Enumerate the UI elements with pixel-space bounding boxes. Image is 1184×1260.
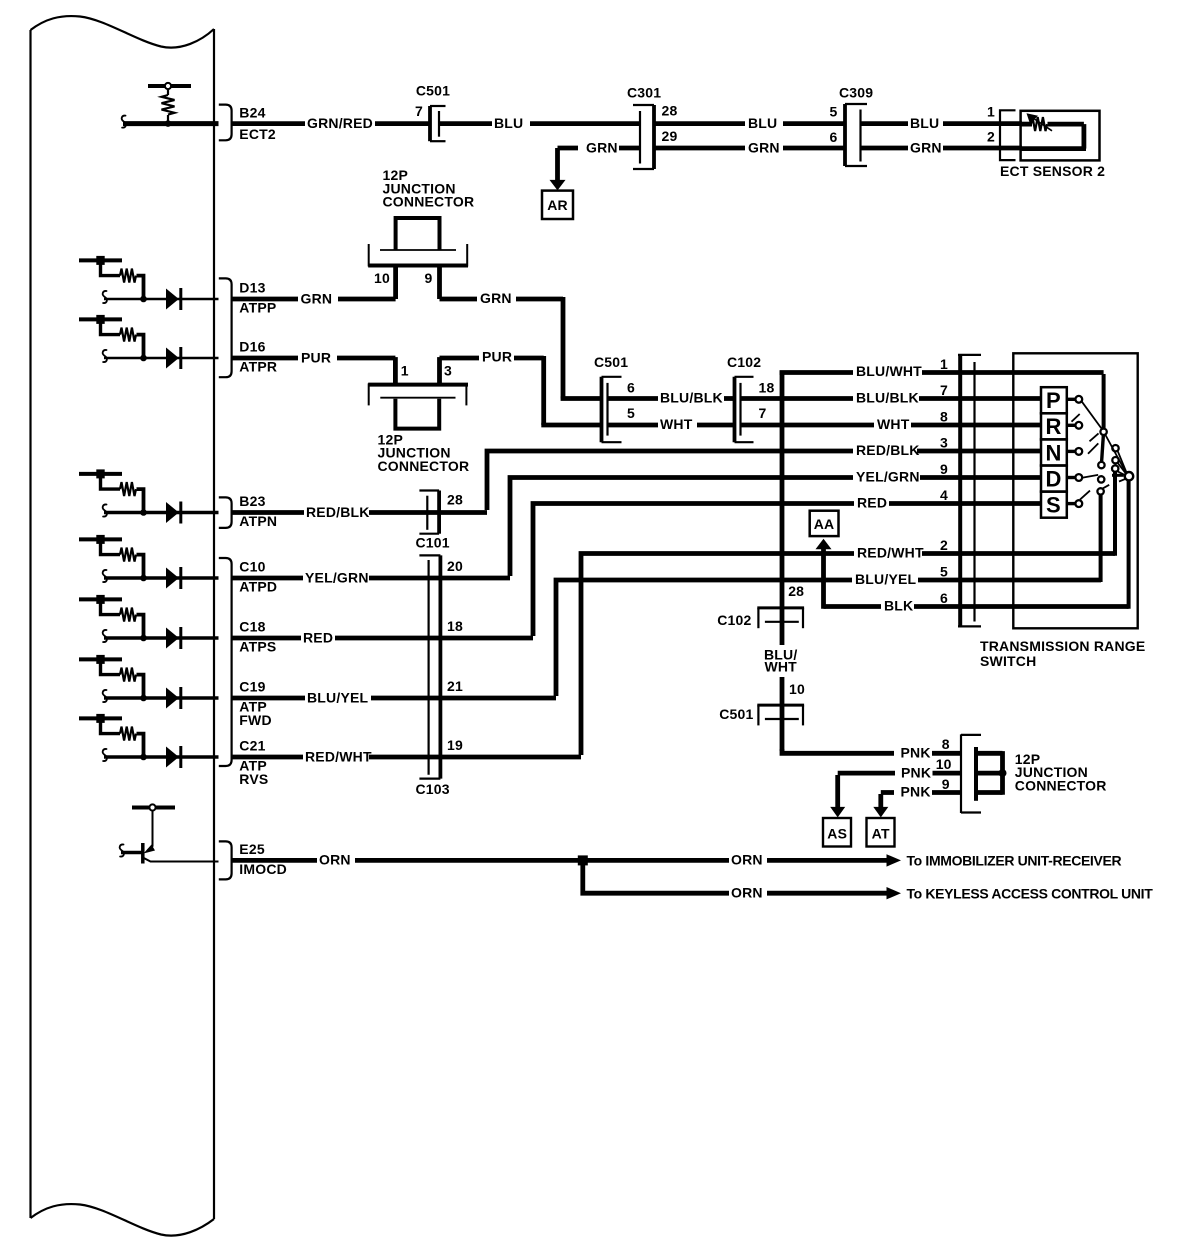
svg-text:10: 10 [374,270,390,286]
ECT sensor 2 (thermistor) [1000,111,1105,179]
wire GRN (C309 to ECT sensor) [861,129,1023,156]
svg-text:BLU: BLU [494,115,523,131]
switch common terminal [1125,472,1133,480]
resistor network B23 [79,469,219,523]
connector pin B24/ECT2 [219,105,232,141]
label C21/ATP RVS [239,738,268,787]
svg-text:BLU/YEL: BLU/YEL [307,689,369,705]
svg-text:C501: C501 [416,83,450,99]
svg-text:PNK: PNK [901,745,931,761]
connector pin C10-C21 bracket [219,558,232,766]
svg-text:RED/WHT: RED/WHT [857,545,924,561]
switch position boxes P R N D S [1041,387,1067,518]
svg-text:BLU: BLU [748,115,777,131]
wire BLU (C309 to ECT sensor) [861,104,1023,131]
AR box [542,191,573,219]
svg-text:WHT: WHT [660,416,693,432]
label C18/ATPS [239,619,276,655]
svg-text:1: 1 [401,363,409,379]
svg-text:ORN: ORN [731,852,763,868]
svg-text:2: 2 [987,129,995,145]
connector C102 pin 28 (vertical) [717,583,804,628]
svg-text:E25: E25 [239,841,265,857]
wire PUR (D16 to junction pin 1) [232,349,396,365]
connector C501 pin 10 (vertical) [719,681,805,726]
wire switch pin1 drop [1102,374,1106,429]
transistor at E25 [120,804,219,863]
label transmission range switch [980,638,1145,669]
svg-text:AT: AT [872,826,890,842]
svg-text:To KEYLESS ACCESS CONTROL UNIT: To KEYLESS ACCESS CONTROL UNIT [907,885,1154,901]
connector pin D13-D16 [219,278,232,377]
wire BLU/YEL (C19) [232,689,556,705]
wire YEL/GRN (C10) [232,569,510,585]
svg-text:1: 1 [940,356,948,372]
svg-text:5: 5 [627,405,635,421]
svg-text:N: N [1045,440,1061,465]
svg-text:TRANSMISSION RANGE: TRANSMISSION RANGE [980,638,1145,654]
wire RED/WHT (C21) [232,748,581,764]
resistor network C18 [79,595,219,649]
wire PUR vertical to C501 [541,356,546,425]
switch right contact cluster [1105,435,1126,482]
svg-text:ORN: ORN [319,852,351,868]
svg-text:BLK: BLK [884,598,913,614]
wire GRN/RED [232,115,430,131]
svg-text:21: 21 [447,678,463,694]
svg-text:18: 18 [447,618,463,634]
svg-text:BLU/BLK: BLU/BLK [660,390,723,406]
connector pin B23/ATPN [219,497,232,528]
arrow to AT [873,794,888,817]
svg-text:6: 6 [627,380,635,396]
wire BLK row (to switch pin 6) [824,598,1129,614]
svg-text:RED/BLK: RED/BLK [306,504,370,520]
label D13/ATPP [239,280,276,316]
svg-text:AS: AS [827,826,847,842]
svg-text:AA: AA [814,516,835,532]
svg-text:ECT2: ECT2 [239,126,276,142]
switch pin numbers [940,356,948,606]
svg-text:C501: C501 [719,706,753,722]
wire RED (C18) [232,629,533,645]
svg-text:6: 6 [940,590,948,606]
wire BLU (C301 to C309) [654,115,845,131]
wire GRN (junction pin 9 onward) [440,290,564,306]
svg-text:GRN: GRN [748,139,780,155]
resistor network D16 [79,315,219,369]
wire ORN (to keyless row) [583,858,887,901]
svg-text:ATPP: ATPP [239,300,276,316]
svg-text:CONNECTOR: CONNECTOR [1015,777,1107,793]
switch node above pin5 drop [1097,488,1103,494]
svg-text:C10: C10 [239,559,265,575]
svg-text:B23: B23 [239,493,265,509]
wire B24 inside module [122,116,219,128]
resistor network D13 [79,256,219,310]
svg-text:To IMMOBILIZER UNIT-RECEIVER: To IMMOBILIZER UNIT-RECEIVER [907,853,1122,869]
transmission range switch box [1013,353,1137,628]
switch contact circle at D level [1082,475,1104,483]
arrow to keyless access control unit [887,885,1154,901]
wire WHT (C501 to C102) [608,416,735,432]
svg-text:YEL/GRN: YEL/GRN [856,469,920,485]
label C10/ATPD [239,559,277,595]
wire switch pin2 riser [1113,472,1117,556]
switch open-contact dashes [1072,414,1110,500]
svg-text:PUR: PUR [482,349,512,365]
label D16/ATPR [239,339,277,375]
svg-text:D16: D16 [239,339,265,355]
AA box [810,511,839,536]
svg-text:28: 28 [788,583,804,599]
12P junction connector (top) [368,167,474,299]
AS box [823,818,851,847]
svg-text:ORN: ORN [731,885,763,901]
wire GRN (C301 left, to AR) [558,139,641,155]
svg-text:7: 7 [940,382,948,398]
svg-text:9: 9 [940,461,948,477]
wire BLU/BLK (C501 to C102) [608,390,735,406]
switch arm segment [1098,435,1104,469]
svg-text:7: 7 [759,405,767,421]
svg-text:28: 28 [662,102,678,118]
wire BLU/YEL row (to switch pin 5) [556,571,1101,696]
svg-text:ATPS: ATPS [239,639,276,655]
12P junction connector (lower) [368,357,469,474]
svg-text:18: 18 [759,380,775,396]
svg-text:5: 5 [830,104,838,120]
wire WHT row (to switch pin 8) [741,416,1043,432]
svg-text:2: 2 [940,537,948,553]
wire BLU (C501 to C301) [439,115,640,131]
12P junction connector (right) [961,734,1107,813]
svg-text:R: R [1045,414,1061,439]
svg-text:B24: B24 [239,104,265,120]
svg-text:RED: RED [303,629,333,645]
resistor network C19 [79,655,219,709]
svg-text:28: 28 [447,492,463,508]
svg-text:19: 19 [447,737,463,753]
wire RED row (to switch pin 4) [533,495,1042,637]
svg-text:ATPD: ATPD [239,579,277,595]
svg-text:4: 4 [940,487,948,503]
svg-text:BLU/WHT: BLU/WHT [856,363,922,379]
svg-text:RED/WHT: RED/WHT [305,748,372,764]
svg-text:C101: C101 [416,535,450,551]
wire PNK row 9 [881,776,1003,800]
switch contacts P R N D S [1067,396,1082,507]
wire GRN into C501 pin 6 [563,396,601,398]
svg-text:CONNECTOR: CONNECTOR [378,458,470,474]
svg-text:BLU/YEL: BLU/YEL [855,571,917,587]
connector C301 pins 28/29 [627,85,677,170]
svg-text:3: 3 [444,363,452,379]
svg-text:YEL/GRN: YEL/GRN [305,569,369,585]
svg-text:SWITCH: SWITCH [980,653,1036,669]
connector C102 pins 18/7 (mid) [727,354,774,442]
svg-text:29: 29 [662,128,678,144]
svg-text:ECT SENSOR 2: ECT SENSOR 2 [1000,163,1105,179]
wire GRN vertical to C501 [561,297,566,399]
svg-text:8: 8 [940,409,948,425]
svg-text:ATPR: ATPR [239,359,277,375]
svg-text:8: 8 [942,736,950,752]
svg-text:C103: C103 [416,781,450,797]
svg-text:3: 3 [940,435,948,451]
svg-text:D13: D13 [239,280,265,296]
arrow to AA [816,539,832,609]
svg-text:S: S [1046,492,1061,517]
wire BLU/BLK row (to switch pin 7) [741,390,1043,406]
connector C103 pins 20/18/21/19 [416,555,463,796]
label E25/IMOCD [239,841,287,877]
arrow to AR [550,148,566,190]
wire switch pin6 riser [1127,480,1131,609]
wire BLU/WHT drop (lower) [780,677,785,751]
svg-text:BLU/BLK: BLU/BLK [856,390,919,406]
svg-text:PNK: PNK [901,784,931,800]
wire RED/WHT row (to switch pin 2) [581,545,1115,756]
svg-text:CONNECTOR: CONNECTOR [383,194,475,210]
svg-text:GRN: GRN [480,290,512,306]
wire switch pin5 riser [1099,494,1103,582]
wire RED/BLK (B23) [232,504,487,520]
wire YEL/GRN row (to switch pin 9) [510,469,1042,577]
svg-text:WHT: WHT [877,416,910,432]
connector C309 pins 5/6 [830,85,874,167]
connector pin E25/IMOCD [219,841,232,879]
wire PUR into C501 pin 5 [544,423,601,425]
svg-text:9: 9 [425,270,433,286]
wire RED/BLK row (to switch pin 3) [487,442,1042,510]
svg-text:6: 6 [830,129,838,145]
svg-text:9: 9 [942,776,950,792]
AT box [867,818,895,847]
wire GRN (D13 to junction pin 10) [232,290,396,306]
connector C501 pins 6/5 (mid) [594,354,635,442]
wire BLU/WHT drop (upper) [780,371,785,646]
connector C501 pin 7 (top row) [415,83,450,142]
svg-text:RVS: RVS [239,771,268,787]
svg-text:FWD: FWD [239,712,271,728]
svg-text:AR: AR [547,197,568,213]
svg-text:PNK: PNK [901,764,931,780]
svg-text:PUR: PUR [301,349,331,365]
svg-text:5: 5 [940,564,948,580]
svg-text:RED: RED [857,495,887,511]
svg-text:RED/BLK: RED/BLK [856,442,920,458]
switch wiper P arm [1082,401,1103,430]
resistor network C21 [79,714,219,768]
svg-text:GRN/RED: GRN/RED [307,115,373,131]
switch common node under pin1 [1100,429,1106,435]
svg-text:C18: C18 [239,619,265,635]
svg-text:BLU: BLU [910,115,939,131]
svg-text:GRN: GRN [301,290,333,306]
svg-text:GRN: GRN [910,139,942,155]
svg-text:1: 1 [987,104,995,120]
label BLU/WHT (vertical wire) [764,647,797,675]
svg-text:C301: C301 [627,85,661,101]
svg-text:IMOCD: IMOCD [239,861,287,877]
wire PNK row 10 [838,756,1003,780]
svg-text:20: 20 [447,558,463,574]
module PCM boundary (torn strip) [31,16,215,1236]
arrow to AS [830,775,845,817]
svg-text:P: P [1046,388,1061,413]
connector at transmission range switch [958,354,981,627]
svg-text:C102: C102 [727,354,761,370]
wire ORN (E25, first segment) [232,852,887,868]
wire PNK row 8 [782,736,1003,761]
svg-text:GRN: GRN [586,139,618,155]
svg-text:WHT: WHT [764,659,797,675]
resistor network C10 [79,535,219,589]
resistor pull-up at B24 (supply bar, circle, coil) [148,83,191,127]
svg-text:C309: C309 [839,85,873,101]
svg-text:D: D [1045,466,1061,491]
label C19/ATP FWD [239,679,271,728]
label B23/ATPN [239,493,277,529]
label B24/ECT2 [239,104,276,142]
svg-text:C21: C21 [239,738,265,754]
svg-text:C19: C19 [239,679,265,695]
connector C101 pin 28 [416,491,463,551]
svg-text:C501: C501 [594,354,628,370]
svg-text:C102: C102 [717,612,751,628]
svg-text:10: 10 [936,756,952,772]
svg-text:ATPN: ATPN [239,513,277,529]
connector at ECT sensor 2 [1000,110,1016,160]
arrow to immobilizer unit-receiver [887,853,1122,869]
svg-text:7: 7 [415,103,423,119]
svg-text:10: 10 [789,681,805,697]
wire BLU/WHT row [782,363,1104,379]
wire GRN (C301 to C309) [654,139,845,155]
wire PUR (junction pin 3 onward) [440,349,544,365]
